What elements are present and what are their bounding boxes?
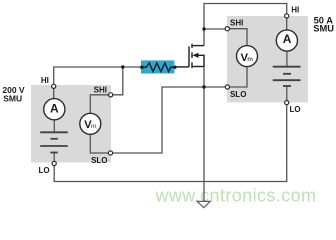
junction: SHI tap on drain wire (202, 27, 205, 30)
voltmeter Vm1 (200 V SMU) (80, 113, 101, 134)
svg-text:m: m (91, 123, 97, 130)
junction: SHI tap on gate wire (121, 65, 124, 68)
ammeter A1 (200 V SMU) (44, 99, 65, 120)
wire: drain node tap to 50A SMU SHI (204, 28, 225, 30)
terminal SLO (200 V SMU) (108, 151, 112, 155)
svg-text:HI: HI (41, 76, 49, 85)
wire: 200V SMU HI up and across to resistor R1 (54, 67, 142, 84)
wire: drain up and across top to 50A SMU HI (204, 4, 287, 46)
wire: 200V SMU LO down, across bottom, up to 50A SMU LO (54, 105, 287, 182)
wire: 50A SMU HI to ammeter A2 (286, 18, 288, 30)
terminal HI (50 A SMU) (285, 14, 289, 18)
battery B1 (200 V SMU) (40, 132, 68, 152)
svg-text:SLO: SLO (230, 90, 246, 99)
svg-text:SMU: SMU (313, 24, 334, 34)
wire: voltmeter Vm2 bottom to 50A SMU SLO (230, 67, 248, 87)
wire: 200V SMU SLO across and up to source node (113, 87, 226, 153)
wire: HI terminal to ammeter A1 (53, 88, 55, 98)
svg-text:HI: HI (291, 6, 299, 15)
svg-text:SLO: SLO (91, 156, 107, 165)
svg-text:SMU: SMU (3, 93, 22, 103)
resistor R1 (142, 63, 175, 72)
resistor R1 left lead dot (140, 66, 143, 69)
battery B2 (50 A SMU) (273, 67, 301, 86)
junction: source / SLO node (202, 85, 205, 88)
svg-text:SHI: SHI (94, 86, 107, 95)
terminal LO (50 A SMU) (285, 101, 289, 105)
terminal SHI (50 A SMU) (225, 27, 229, 31)
wire: voltmeter Vm1 bottom to 200V SMU SLO (90, 134, 108, 153)
svg-text:A: A (50, 102, 59, 116)
200 V SMU enclosure (31, 85, 111, 163)
ground (197, 201, 210, 207)
wire: ammeter A1 to battery B1 (53, 120, 55, 133)
terminal HI (200 V SMU) (52, 84, 56, 88)
wire: 200V SMU SHI to voltmeter Vm1 top (90, 95, 108, 114)
svg-text:A: A (283, 32, 292, 46)
svg-text:www.cntronics.com: www.cntronics.com (155, 186, 317, 206)
svg-text:SHI: SHI (230, 18, 243, 27)
ammeter A2 (50 A SMU) (276, 30, 297, 51)
wire: source node down to ground (203, 67, 205, 202)
voltmeter Vm2 (50 A SMU) (237, 46, 258, 67)
svg-text:LO: LO (38, 166, 49, 175)
terminal SLO (50 A SMU) (225, 85, 229, 89)
wire: battery B2 to LO terminal (286, 86, 288, 101)
svg-text:LO: LO (290, 105, 301, 114)
wire: battery B1 to LO terminal (53, 153, 55, 162)
terminal SHI (200 V SMU) (109, 93, 113, 97)
transistor Q1 (N-channel MOSFET) (175, 44, 204, 68)
terminal LO (200 V SMU) (52, 161, 56, 165)
wire: ammeter A2 to battery B2 (286, 51, 288, 67)
50 A SMU enclosure (227, 16, 308, 103)
wire: tap down to 200V SMU SHI (113, 67, 123, 95)
wire: 50A SMU SHI to voltmeter Vm2 top (229, 29, 247, 46)
svg-text:m: m (247, 56, 253, 63)
resistor R1 right lead dot (173, 66, 176, 69)
resistor highlight (141, 60, 174, 73)
